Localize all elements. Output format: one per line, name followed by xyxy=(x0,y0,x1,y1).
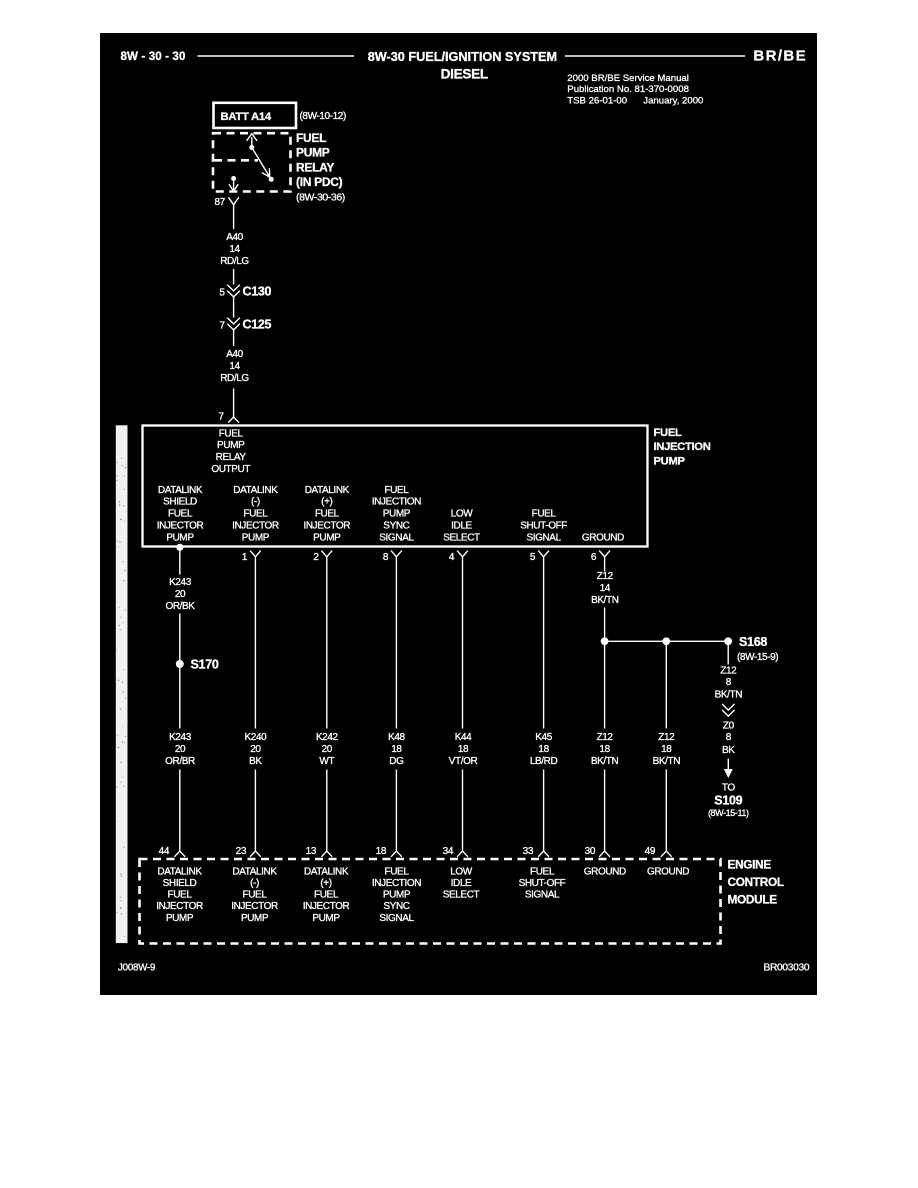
svg-text:INJECTOR: INJECTOR xyxy=(303,520,350,531)
svg-text:Z12: Z12 xyxy=(597,732,614,743)
ECM pin label col1 DATALINK SHIELD FUEL INJECTOR PUMP xyxy=(156,866,203,924)
pump pin label col2 DATALINK (-) FUEL INJECTOR PUMP xyxy=(232,485,279,544)
wire col3 xyxy=(326,557,328,729)
svg-text:S170: S170 xyxy=(191,658,219,672)
svg-text:FUEL: FUEL xyxy=(532,509,557,520)
pump pin 2 xyxy=(313,551,332,563)
svg-text:S109: S109 xyxy=(714,793,742,807)
svg-text:PUMP: PUMP xyxy=(383,890,411,901)
svg-text:6: 6 xyxy=(591,552,597,563)
ECM pin 33 xyxy=(523,846,549,857)
svg-text:IDLE: IDLE xyxy=(451,520,472,531)
svg-text:A40: A40 xyxy=(226,232,243,243)
wire col1 upper xyxy=(179,551,181,575)
svg-text:OR/BR: OR/BR xyxy=(165,756,195,767)
fuel injection pump box xyxy=(143,426,648,547)
ECM pin label col5 LOW IDLE SELECT xyxy=(443,866,480,900)
wire col1 mid xyxy=(179,614,181,661)
svg-text:OUTPUT: OUTPUT xyxy=(211,464,250,475)
svg-text:87: 87 xyxy=(214,197,225,208)
svg-text:5: 5 xyxy=(219,287,225,298)
svg-text:INJECTOR: INJECTOR xyxy=(232,520,279,531)
svg-text:SHIELD: SHIELD xyxy=(163,878,197,889)
svg-text:MODULE: MODULE xyxy=(728,893,778,907)
svg-text:LOW: LOW xyxy=(450,866,473,877)
svg-text:J008W-9: J008W-9 xyxy=(118,962,155,973)
svg-text:2: 2 xyxy=(313,552,319,563)
wire label K44 18 VT/OR xyxy=(449,732,478,767)
svg-text:8: 8 xyxy=(726,677,732,688)
svg-text:8: 8 xyxy=(383,552,389,563)
svg-text:SIGNAL: SIGNAL xyxy=(379,532,414,543)
wire col8 xyxy=(665,641,667,728)
svg-text:IDLE: IDLE xyxy=(451,878,472,889)
svg-text:Z12: Z12 xyxy=(720,666,737,677)
splice junction dot col7 xyxy=(601,637,609,645)
svg-text:(-): (-) xyxy=(251,497,260,508)
svg-text:8W - 30 - 30: 8W - 30 - 30 xyxy=(121,50,186,63)
svg-text:FUEL: FUEL xyxy=(384,485,409,496)
svg-text:23: 23 xyxy=(236,846,247,857)
svg-text:RELAY: RELAY xyxy=(216,452,247,463)
wire xyxy=(233,389,235,418)
svg-text:BK/TN: BK/TN xyxy=(591,595,619,606)
ECM pin 30 xyxy=(585,846,610,857)
svg-text:RELAY: RELAY xyxy=(296,160,334,174)
pump pin label col5 LOW IDLE SELECT xyxy=(443,509,480,544)
svg-text:SELECT: SELECT xyxy=(443,890,480,901)
pin 87 connector Y xyxy=(228,197,238,205)
svg-text:FUEL: FUEL xyxy=(168,509,193,520)
svg-text:33: 33 xyxy=(523,846,534,857)
wire col8 to ECM xyxy=(665,770,667,852)
svg-text:BATT A14: BATT A14 xyxy=(221,111,272,123)
svg-text:18: 18 xyxy=(599,744,610,755)
svg-text:TO: TO xyxy=(722,782,736,793)
svg-text:7: 7 xyxy=(219,320,225,331)
svg-text:C125: C125 xyxy=(243,318,272,332)
svg-text:INJECTION: INJECTION xyxy=(372,878,421,889)
svg-text:DATALINK: DATALINK xyxy=(232,866,277,877)
svg-text:18: 18 xyxy=(661,744,672,755)
svg-text:DATALINK: DATALINK xyxy=(304,866,349,877)
svg-text:Z12: Z12 xyxy=(658,732,675,743)
svg-text:SIGNAL: SIGNAL xyxy=(526,532,561,543)
svg-text:PUMP: PUMP xyxy=(166,532,194,543)
wire col1 to ECM xyxy=(179,770,181,852)
wire label K243 20 OR/BK xyxy=(165,577,195,612)
wire label A40 14 RD/LG upper xyxy=(220,232,249,267)
svg-text:BR/BE: BR/BE xyxy=(753,48,807,65)
wire label K48 18 DG xyxy=(388,732,405,767)
svg-text:FUEL: FUEL xyxy=(385,866,410,877)
svg-text:(8W-10-12): (8W-10-12) xyxy=(300,111,346,122)
relay common pin arrow up xyxy=(247,134,257,150)
wire col2 xyxy=(254,557,256,729)
svg-text:2000 BR/BE Service Manual: 2000 BR/BE Service Manual xyxy=(567,73,689,84)
arrow to S109 xyxy=(724,759,733,779)
pump pin label col1 DATALINK SHIELD FUEL INJECTOR PUMP xyxy=(157,485,204,544)
splice bus wire xyxy=(605,640,729,642)
svg-text:8W-30 FUEL/IGNITION SYSTEM: 8W-30 FUEL/IGNITION SYSTEM xyxy=(368,50,557,64)
svg-text:TSB 26-01-00: TSB 26-01-00 xyxy=(567,95,627,106)
ECM pin 13 xyxy=(306,846,333,857)
svg-text:PUMP: PUMP xyxy=(242,532,270,543)
svg-text:K243: K243 xyxy=(169,577,192,588)
svg-text:PUMP: PUMP xyxy=(241,913,269,924)
svg-text:INJECTION: INJECTION xyxy=(654,441,711,453)
svg-text:WT: WT xyxy=(319,756,334,767)
svg-text:SHUT-OFF: SHUT-OFF xyxy=(520,520,567,531)
destination label TO S109 xyxy=(708,782,749,818)
battery feed box BATT A14 xyxy=(214,103,297,128)
wire label K243 20 OR/BR xyxy=(165,732,195,767)
svg-text:K44: K44 xyxy=(455,732,472,743)
svg-text:LOW: LOW xyxy=(451,509,474,520)
relay label FUEL PUMP RELAY (IN PDC) xyxy=(296,131,345,204)
svg-text:4: 4 xyxy=(449,552,455,563)
svg-text:14: 14 xyxy=(600,583,611,594)
svg-text:C130: C130 xyxy=(243,285,272,299)
svg-text:5: 5 xyxy=(530,552,536,563)
header rule left segment xyxy=(198,55,355,57)
svg-text:FUEL: FUEL xyxy=(243,890,268,901)
wire col5 xyxy=(462,557,464,729)
ECM pin 34 xyxy=(443,846,468,857)
svg-text:January, 2000: January, 2000 xyxy=(643,95,703,106)
svg-text:RD/LG: RD/LG xyxy=(220,256,249,267)
svg-text:(8W-30-36): (8W-30-36) xyxy=(296,191,345,203)
svg-text:18: 18 xyxy=(376,846,387,857)
wire col6 xyxy=(543,557,545,729)
svg-text:GROUND: GROUND xyxy=(582,532,624,543)
svg-text:BK/TN: BK/TN xyxy=(591,756,619,767)
connector C125 xyxy=(219,318,271,332)
svg-text:BR003030: BR003030 xyxy=(764,963,810,974)
svg-text:INJECTOR: INJECTOR xyxy=(231,901,278,912)
svg-text:BK/TN: BK/TN xyxy=(653,756,681,767)
ECM pin 23 xyxy=(236,846,261,857)
svg-text:GROUND: GROUND xyxy=(647,866,689,877)
splice junction dot col8 xyxy=(662,637,670,645)
svg-text:DIESEL: DIESEL xyxy=(441,67,488,82)
wire col4 xyxy=(395,557,397,729)
svg-text:(IN PDC): (IN PDC) xyxy=(296,175,343,189)
svg-text:7: 7 xyxy=(218,412,224,423)
wire xyxy=(233,297,235,318)
relay internal divider xyxy=(214,159,258,162)
svg-text:8: 8 xyxy=(726,732,732,743)
svg-text:BK/TN: BK/TN xyxy=(715,690,743,701)
svg-text:DATALINK: DATALINK xyxy=(158,485,203,496)
wire label K45 18 LB/RD xyxy=(530,732,558,767)
svg-text:PUMP: PUMP xyxy=(654,455,686,467)
pump pin 1 xyxy=(242,551,261,563)
svg-text:49: 49 xyxy=(645,846,656,857)
svg-text:PUMP: PUMP xyxy=(383,509,411,520)
svg-text:1: 1 xyxy=(242,552,248,563)
svg-text:FUEL: FUEL xyxy=(315,509,340,520)
svg-text:K243: K243 xyxy=(169,732,192,743)
svg-text:20: 20 xyxy=(175,589,186,600)
svg-text:PUMP: PUMP xyxy=(313,532,341,543)
svg-text:DG: DG xyxy=(389,756,404,767)
svg-text:SIGNAL: SIGNAL xyxy=(379,913,414,924)
black diagram panel xyxy=(100,33,817,995)
svg-text:BK: BK xyxy=(249,756,262,767)
svg-text:K45: K45 xyxy=(535,732,552,743)
wire label Z12 18 BK/TN col8 xyxy=(653,732,681,767)
svg-text:A40: A40 xyxy=(226,349,243,360)
wire col1 lower xyxy=(179,668,181,729)
svg-text:FUEL: FUEL xyxy=(530,866,555,877)
svg-text:13: 13 xyxy=(306,846,317,857)
svg-text:INJECTION: INJECTION xyxy=(372,497,421,508)
ECM pin 49 xyxy=(645,846,672,857)
wire from relay pin 87 xyxy=(233,205,235,229)
svg-text:FUEL: FUEL xyxy=(219,428,244,439)
svg-text:(-): (-) xyxy=(250,878,259,889)
engine control module dashed box xyxy=(140,859,721,944)
ECM label ENGINE CONTROL MODULE xyxy=(728,858,784,907)
svg-text:K242: K242 xyxy=(316,732,339,743)
relay K1 fuel pump relay dashed box xyxy=(213,133,291,191)
svg-text:DATALINK: DATALINK xyxy=(233,485,278,496)
wire col7 lower xyxy=(604,608,606,729)
svg-text:FUEL: FUEL xyxy=(654,427,682,439)
svg-text:INJECTOR: INJECTOR xyxy=(156,901,203,912)
svg-text:PUMP: PUMP xyxy=(166,913,194,924)
wire xyxy=(233,269,235,285)
svg-text:CONTROL: CONTROL xyxy=(728,875,784,889)
svg-text:VT/OR: VT/OR xyxy=(449,756,478,767)
wire col7 to ECM xyxy=(604,770,606,852)
pump pin label col6 FUEL SHUT-OFF SIGNAL xyxy=(520,509,567,544)
ECM pin 18 xyxy=(376,846,402,857)
pump pin 5 xyxy=(530,551,549,563)
page edge strip xyxy=(116,425,128,943)
svg-text:DATALINK: DATALINK xyxy=(305,485,350,496)
svg-text:INJECTOR: INJECTOR xyxy=(303,901,350,912)
wire label A40 14 RD/LG lower xyxy=(220,349,249,384)
wire col6 to ECM xyxy=(543,770,545,852)
pin 7 connector fork xyxy=(228,417,239,423)
svg-text:30: 30 xyxy=(585,846,596,857)
ECM pin label col3 DATALINK (+) FUEL INJECTOR PUMP xyxy=(303,866,350,924)
pump pin 6 xyxy=(591,551,610,563)
svg-text:(8W-15-9): (8W-15-9) xyxy=(737,652,778,663)
header rule right segment xyxy=(565,55,745,57)
relay switch blade xyxy=(252,148,274,182)
svg-text:DATALINK: DATALINK xyxy=(157,866,202,877)
pump pin label col3 DATALINK (+) FUEL INJECTOR PUMP xyxy=(303,485,350,544)
wire col2 to ECM xyxy=(254,770,256,852)
svg-text:18: 18 xyxy=(458,744,469,755)
svg-text:GROUND: GROUND xyxy=(584,866,626,877)
wire col5 to ECM xyxy=(462,770,464,852)
svg-text:PUMP: PUMP xyxy=(217,440,245,451)
svg-text:44: 44 xyxy=(159,846,170,857)
svg-text:SHIELD: SHIELD xyxy=(163,497,197,508)
svg-text:FUEL: FUEL xyxy=(168,890,193,901)
svg-text:18: 18 xyxy=(391,744,402,755)
svg-text:RD/LG: RD/LG xyxy=(220,373,249,384)
svg-text:20: 20 xyxy=(175,744,186,755)
svg-text:SHUT-OFF: SHUT-OFF xyxy=(519,878,566,889)
svg-text:ENGINE: ENGINE xyxy=(728,858,772,872)
svg-text:PUMP: PUMP xyxy=(312,913,340,924)
pump pin 4 xyxy=(449,551,468,563)
connector C130 xyxy=(219,285,271,299)
svg-text:SYNC: SYNC xyxy=(383,901,409,912)
svg-text:K48: K48 xyxy=(388,732,405,743)
svg-text:SIGNAL: SIGNAL xyxy=(525,890,560,901)
svg-text:SELECT: SELECT xyxy=(443,532,480,543)
svg-text:34: 34 xyxy=(443,846,454,857)
svg-text:20: 20 xyxy=(322,744,333,755)
relay output pin 87 arrow down xyxy=(229,176,238,191)
wire label K240 20 BK xyxy=(245,732,268,767)
pump pin col1 junction dot xyxy=(176,544,183,551)
wire label Z12 18 BK/TN col7 xyxy=(591,732,619,767)
wire label Z12 8 BK/TN xyxy=(715,666,743,701)
svg-text:18: 18 xyxy=(538,744,549,755)
svg-text:BK: BK xyxy=(722,745,735,756)
svg-text:K240: K240 xyxy=(245,732,268,743)
svg-text:FUEL: FUEL xyxy=(243,509,268,520)
wire label K242 20 WT xyxy=(316,732,339,767)
svg-text:(8W-15-11): (8W-15-11) xyxy=(708,808,749,818)
pump pin label FUEL PUMP RELAY OUTPUT xyxy=(211,428,250,475)
wire col4 to ECM xyxy=(395,770,397,852)
svg-text:LB/RD: LB/RD xyxy=(530,756,558,767)
wire col3 to ECM xyxy=(326,770,328,852)
ECM pin label col4 FUEL INJECTION PUMP SYNC SIGNAL xyxy=(372,866,421,924)
svg-text:Z0: Z0 xyxy=(723,721,735,732)
svg-text:Z12: Z12 xyxy=(597,571,614,582)
svg-text:PUMP: PUMP xyxy=(296,146,330,160)
wire label Z0 8 BK xyxy=(722,721,735,756)
ECM pin 44 xyxy=(159,846,186,857)
wire S168 drop xyxy=(727,645,729,665)
svg-text:14: 14 xyxy=(229,244,240,255)
label FUEL INJECTION PUMP right of box xyxy=(654,427,711,468)
svg-text:OR/BK: OR/BK xyxy=(165,601,195,612)
strip speckles xyxy=(116,458,126,938)
svg-text:(+): (+) xyxy=(320,878,331,889)
ECM pin label col2 DATALINK (-) FUEL INJECTOR PUMP xyxy=(231,866,278,924)
svg-text:(+): (+) xyxy=(321,497,332,508)
wire col7 upper xyxy=(604,557,606,572)
ECM pin label col6 FUEL SHUT-OFF SIGNAL xyxy=(519,866,566,900)
pump pin 8 xyxy=(383,551,402,563)
svg-text:Publication No. 81-370-0008: Publication No. 81-370-0008 xyxy=(567,84,689,95)
svg-text:20: 20 xyxy=(250,744,261,755)
svg-text:INJECTOR: INJECTOR xyxy=(157,520,204,531)
wire xyxy=(233,330,235,346)
wire label Z12 14 BK/TN xyxy=(591,571,619,606)
splice S168 xyxy=(724,635,778,663)
svg-text:14: 14 xyxy=(229,361,240,372)
svg-text:FUEL: FUEL xyxy=(314,890,339,901)
svg-text:SYNC: SYNC xyxy=(383,520,409,531)
svg-text:FUEL: FUEL xyxy=(296,131,326,145)
splice S170 xyxy=(176,658,219,672)
svg-text:S168: S168 xyxy=(739,635,767,649)
connector chevrons on ground lead xyxy=(722,704,735,716)
pump pin label col4 FUEL INJECTION PUMP SYNC SIGNAL xyxy=(372,485,421,544)
